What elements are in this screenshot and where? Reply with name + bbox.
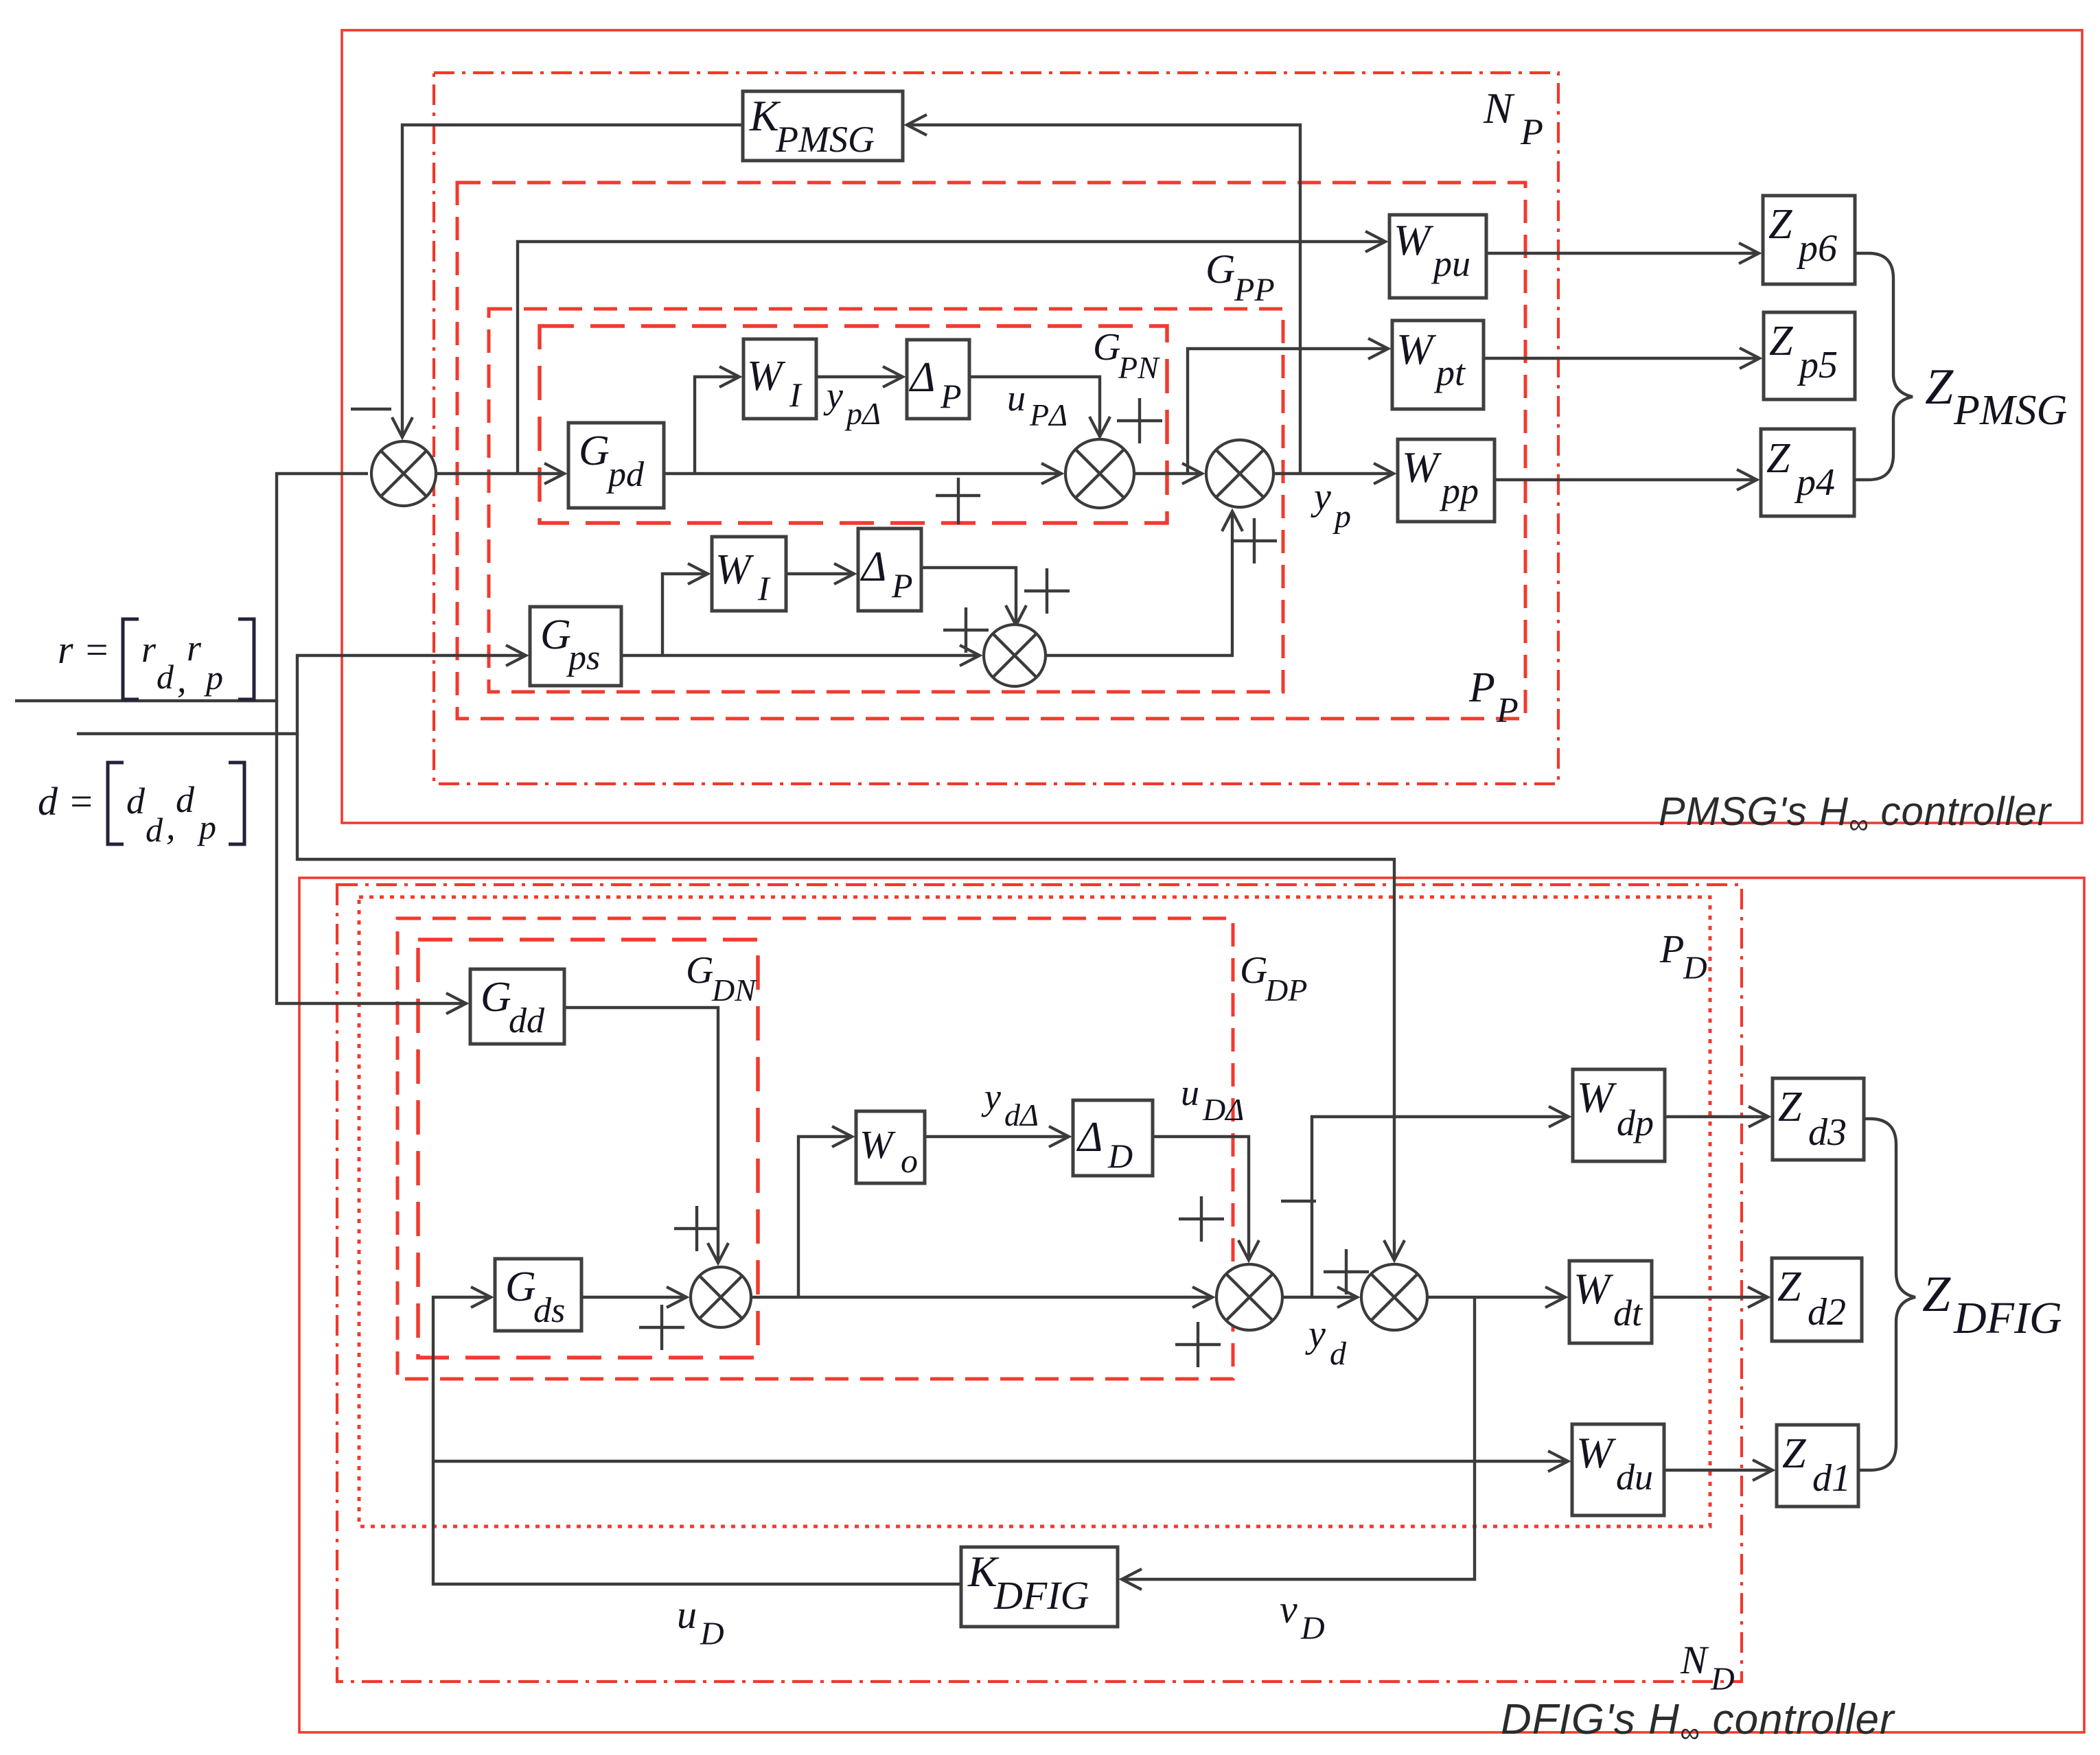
svg-text:PP: PP <box>1234 272 1275 308</box>
node G_PP dashed frame <box>489 309 1283 692</box>
svg-text:,: , <box>177 659 187 700</box>
svg-text:I: I <box>789 375 803 414</box>
plus sign at sum E top input <box>674 1206 719 1251</box>
summing junction C (y_p) <box>1206 440 1273 507</box>
block Z_d1 <box>1777 1425 1858 1507</box>
svg-text:pu: pu <box>1431 243 1470 284</box>
plus sign at sum E left input <box>639 1305 684 1350</box>
svg-text:u: u <box>677 1592 697 1637</box>
svg-text:Z: Z <box>1925 359 1954 415</box>
label y_dDelta <box>981 1076 1039 1132</box>
block W_dt <box>1569 1261 1652 1343</box>
svg-text:G: G <box>1093 326 1120 369</box>
svg-text:D: D <box>700 1616 724 1652</box>
label Z_PMSG <box>1925 359 2067 434</box>
svg-text:PMSG: PMSG <box>1953 387 2067 434</box>
wire r branch down to Gdd <box>277 701 466 1003</box>
wire sum F to sum G <box>1282 1296 1357 1299</box>
svg-text:pΔ: pΔ <box>844 396 881 431</box>
svg-text:P: P <box>940 377 962 415</box>
svg-text:dt: dt <box>1613 1292 1643 1334</box>
svg-text:W: W <box>1573 1264 1614 1313</box>
wire Wdu to Zd1 <box>1664 1469 1773 1472</box>
svg-text:Z: Z <box>1778 1084 1802 1130</box>
wire sum E to sum F <box>751 1296 1212 1299</box>
wire Wpp to Zp4 <box>1495 478 1757 481</box>
svg-text:W: W <box>1577 1073 1617 1121</box>
svg-text:u: u <box>1007 377 1026 419</box>
block G_dd <box>470 969 564 1044</box>
wire Wdp to Zd3 <box>1665 1115 1768 1118</box>
svg-text:y: y <box>1305 1313 1326 1356</box>
wire branch u_D to Wdu <box>433 1460 1568 1463</box>
node G_DN dashed frame <box>418 940 758 1358</box>
svg-text:Δ: Δ <box>908 354 935 401</box>
svg-text:p: p <box>204 658 223 697</box>
svg-text:Z: Z <box>1922 1266 1951 1323</box>
plus sign at sum F left input <box>1175 1322 1221 1367</box>
label G_PP <box>1205 246 1275 308</box>
svg-text:P: P <box>1468 664 1495 711</box>
input label d = [dd, dp] <box>38 763 244 849</box>
svg-text:DΔ: DΔ <box>1202 1092 1244 1127</box>
svg-text:Z: Z <box>1769 318 1793 364</box>
label y_p <box>1311 476 1351 535</box>
svg-text:d: d <box>176 779 195 820</box>
svg-text:N: N <box>1680 1638 1709 1682</box>
svg-text:d: d <box>126 780 146 822</box>
wire WI to DeltaP upper <box>816 375 903 378</box>
svg-text:p4: p4 <box>1794 461 1835 504</box>
plus sign at sum D left input <box>943 607 989 653</box>
wire sum A to Gpd <box>436 472 564 475</box>
block W_pp <box>1398 439 1495 522</box>
minus sign at sum A top input <box>351 408 391 410</box>
svg-text:DP: DP <box>1265 973 1307 1008</box>
svg-text:Δ: Δ <box>859 544 886 590</box>
svg-text:G: G <box>1240 949 1267 992</box>
DFIG controller outer frame <box>299 878 2084 1732</box>
svg-text:W: W <box>1576 1428 1617 1477</box>
PMSG controller outer frame <box>342 30 2082 823</box>
svg-text:y: y <box>1311 476 1331 518</box>
wire Gdd output to sum E top <box>564 1008 718 1263</box>
block Z_p4 <box>1761 429 1854 516</box>
label P_P <box>1468 664 1519 730</box>
block W_I upper <box>743 339 816 419</box>
svg-text:v: v <box>1280 1587 1297 1631</box>
wire Wdt to Zd2 <box>1652 1296 1768 1299</box>
svg-text:Z: Z <box>1766 435 1790 482</box>
svg-text:D: D <box>1107 1137 1133 1175</box>
input label r = [rd, rp] <box>58 619 254 700</box>
svg-text:dp: dp <box>1617 1102 1654 1143</box>
svg-text:DN: DN <box>711 973 757 1008</box>
label G_DN <box>686 949 757 1008</box>
block G_pd <box>568 423 664 508</box>
summing junction B (G_PN output) <box>1065 439 1134 508</box>
wire Gpd output to sum B <box>664 472 1061 475</box>
svg-text:DFIG: DFIG <box>993 1573 1089 1618</box>
summing junction F (G_DP output) <box>1216 1264 1282 1330</box>
node P_P dashed frame <box>457 183 1525 719</box>
wire u_D from K_DFIG to Gds <box>433 1297 961 1584</box>
label G_DP <box>1240 949 1307 1008</box>
label y_pDelta <box>823 375 881 431</box>
wire Wo to DeltaD <box>925 1135 1069 1138</box>
svg-text:d: d <box>157 658 174 696</box>
summing junction E (G_DN) <box>691 1267 751 1327</box>
svg-text:W: W <box>1394 216 1434 264</box>
wire feedback yp to K_PMSG <box>907 125 1300 474</box>
block Z_p6 <box>1763 196 1855 284</box>
summing junction D (G_ps path) <box>984 625 1046 686</box>
svg-text:W: W <box>1402 443 1442 491</box>
svg-text:p6: p6 <box>1796 227 1837 270</box>
brace for Z_PMSG <box>1854 253 1913 480</box>
svg-text:d1: d1 <box>1812 1457 1851 1500</box>
block W_pu <box>1389 215 1486 298</box>
wire branch to Wpt <box>1188 349 1388 474</box>
wire sum C to Wpp <box>1273 472 1394 475</box>
wire sum D to sum C bottom <box>1046 511 1232 655</box>
svg-text:p: p <box>197 808 216 846</box>
svg-text:D: D <box>1710 1661 1735 1697</box>
svg-text:G: G <box>686 949 713 992</box>
node G_PN dashed frame <box>540 326 1167 523</box>
svg-text:PΔ: PΔ <box>1029 397 1068 432</box>
block W_o <box>856 1111 925 1183</box>
svg-text:P: P <box>1496 691 1519 730</box>
svg-text:D: D <box>1683 950 1707 986</box>
svg-text:P: P <box>1520 111 1543 152</box>
label y_d <box>1305 1313 1347 1372</box>
svg-text:d3: d3 <box>1808 1111 1847 1154</box>
wire d input to Gps <box>77 655 526 734</box>
node G_DP dashed frame <box>397 918 1233 1379</box>
wire WI to DeltaP lower <box>786 572 854 575</box>
svg-text:D: D <box>1300 1610 1325 1647</box>
wire branch to Wpu <box>518 242 1385 474</box>
svg-text:r: r <box>187 627 202 669</box>
svg-text:G: G <box>481 974 511 1021</box>
wire r input to sum A <box>15 474 368 701</box>
svg-text:ds: ds <box>533 1291 565 1330</box>
summing junction A (reference error) <box>371 441 436 506</box>
svg-text:W: W <box>1396 325 1437 373</box>
svg-text:Z: Z <box>1768 201 1792 248</box>
svg-text:d: d <box>146 811 163 849</box>
svg-text:dd: dd <box>509 1001 545 1041</box>
minus sign at sum G top input <box>1281 1200 1316 1202</box>
svg-text:r =: r = <box>58 627 110 672</box>
block W_dp <box>1573 1069 1665 1161</box>
svg-text:N: N <box>1483 84 1515 132</box>
svg-text:G: G <box>540 612 571 658</box>
svg-text:d =: d = <box>38 779 95 824</box>
svg-text:r: r <box>141 629 157 670</box>
svg-text:,: , <box>166 806 176 847</box>
svg-text:P: P <box>1659 927 1684 971</box>
svg-text:y: y <box>981 1076 1001 1117</box>
wire DeltaD to sum F top <box>1153 1137 1249 1260</box>
label N_P <box>1483 84 1543 152</box>
block Z_p5 <box>1764 312 1855 399</box>
label N_D <box>1680 1638 1735 1697</box>
wire sum B to sum C <box>1134 472 1202 475</box>
svg-text:DFIG: DFIG <box>1953 1293 2062 1343</box>
label G_PN <box>1093 326 1160 385</box>
svg-text:du: du <box>1616 1456 1653 1498</box>
block Delta_D <box>1073 1100 1153 1176</box>
node N_D dash-dot frame <box>337 885 1742 1682</box>
svg-text:PN: PN <box>1118 350 1160 385</box>
svg-text:Δ: Δ <box>1076 1114 1103 1161</box>
svg-text:Z: Z <box>1782 1430 1806 1477</box>
svg-text:y: y <box>823 375 843 416</box>
block G_ds <box>495 1259 581 1331</box>
block Z_d3 <box>1773 1078 1864 1160</box>
wire K_PMSG output to sum A <box>402 125 743 437</box>
summing junction G (y_d minus) <box>1361 1264 1427 1330</box>
block Z_d2 <box>1772 1258 1862 1341</box>
block Delta_P upper <box>907 340 969 419</box>
svg-text:pp: pp <box>1439 470 1479 511</box>
svg-text:p5: p5 <box>1797 344 1838 386</box>
node N_P dash-dot frame <box>434 73 1558 784</box>
label u_DDelta <box>1181 1072 1244 1127</box>
svg-text:I: I <box>757 569 771 607</box>
label u_PDelta <box>1007 377 1068 432</box>
wire v_D to K_DFIG <box>1122 1297 1475 1579</box>
wire branch yd to Wdp <box>1312 1117 1569 1297</box>
svg-text:u: u <box>1181 1072 1199 1113</box>
wire branch Gps to WI lower <box>662 574 708 655</box>
label u_D <box>677 1592 724 1652</box>
wire sum G to Wdt <box>1427 1296 1565 1299</box>
label v_D <box>1280 1587 1325 1647</box>
svg-text:pt: pt <box>1433 352 1466 393</box>
svg-text:Z: Z <box>1777 1264 1801 1310</box>
node P_D dotted frame <box>359 897 1710 1526</box>
block Delta_P lower <box>858 528 921 611</box>
plus sign at sum D top input <box>1024 568 1070 614</box>
svg-text:dΔ: dΔ <box>1004 1097 1039 1132</box>
plus-minus sign before sum B <box>936 478 980 524</box>
svg-text:PMSG: PMSG <box>775 119 875 160</box>
svg-text:W: W <box>859 1122 896 1167</box>
wire DeltaP to sum B top <box>969 377 1100 437</box>
controller block K_PMSG <box>743 91 903 161</box>
svg-text:P: P <box>891 566 913 605</box>
block W_du <box>1572 1424 1664 1515</box>
block G_ps <box>530 607 621 686</box>
wire DeltaP lower to sum D top <box>921 568 1016 625</box>
block W_pt <box>1392 321 1484 409</box>
svg-text:G: G <box>1205 246 1235 292</box>
label P_D <box>1659 927 1707 986</box>
svg-text:o: o <box>901 1141 918 1180</box>
wire Gps output to sum D <box>621 654 980 657</box>
svg-text:G: G <box>505 1264 536 1310</box>
wire Wpu to Zp6 <box>1486 252 1759 255</box>
svg-text:G: G <box>579 428 610 474</box>
plus sign at sum G left input <box>1324 1249 1369 1294</box>
label Z_DFIG <box>1922 1266 2062 1343</box>
wire d branch down to DFIG sum <box>297 734 1394 1260</box>
plus sign at sum F top input <box>1179 1196 1224 1242</box>
svg-text:p: p <box>1332 498 1351 535</box>
controller block K_DFIG <box>961 1547 1118 1627</box>
svg-text:d2: d2 <box>1808 1291 1846 1334</box>
wire Gds output to sum E <box>581 1296 686 1299</box>
svg-text:pd: pd <box>605 455 645 494</box>
block W_I lower <box>712 537 786 611</box>
plus sign at sum B top input <box>1117 398 1162 443</box>
wire branch to Wo <box>798 1137 852 1297</box>
svg-text:W: W <box>715 546 754 593</box>
wire Wpt to Zp5 <box>1484 357 1759 360</box>
svg-text:W: W <box>747 353 786 399</box>
plus sign at sum C bottom input <box>1232 518 1277 563</box>
brace for Z_DFIG <box>1858 1119 1915 1470</box>
svg-text:d: d <box>1330 1336 1347 1372</box>
svg-text:ps: ps <box>566 638 600 677</box>
wire branch Gpd to WI upper <box>695 377 739 474</box>
